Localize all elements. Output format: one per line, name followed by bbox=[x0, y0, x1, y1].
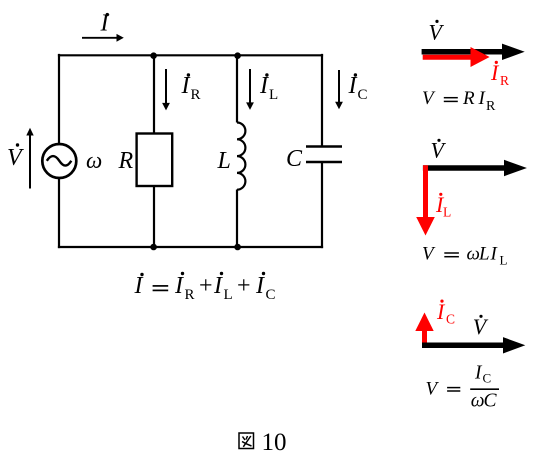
label V source bbox=[7, 143, 24, 171]
phasor2 I_L arrow bbox=[416, 165, 435, 235]
svg-text:R: R bbox=[486, 99, 496, 114]
wire R branch lower bbox=[153, 186, 155, 248]
phasor1 label V bbox=[429, 20, 445, 45]
equation V = omega L I_L bbox=[422, 243, 508, 267]
svg-text:R: R bbox=[462, 88, 475, 109]
svg-text:L: L bbox=[443, 205, 451, 220]
wire left upper bbox=[58, 54, 60, 145]
svg-text:L: L bbox=[478, 243, 490, 264]
svg-text:R: R bbox=[500, 73, 509, 88]
wire L branch upper bbox=[236, 55, 238, 123]
svg-text:L: L bbox=[269, 87, 278, 103]
resistor R bbox=[137, 134, 173, 187]
svg-text:I: I bbox=[255, 273, 265, 299]
svg-text:C: C bbox=[266, 287, 276, 303]
equation I = IR + IL + IC bbox=[134, 272, 276, 303]
wire C branch lower bbox=[321, 163, 323, 249]
svg-text:I: I bbox=[348, 73, 358, 99]
wire top bbox=[58, 54, 323, 56]
svg-text:R: R bbox=[118, 148, 134, 174]
arrow I_C bbox=[335, 70, 343, 109]
svg-text:C: C bbox=[358, 87, 368, 103]
phasor1 V arrow bbox=[422, 44, 525, 60]
svg-text:V: V bbox=[7, 145, 24, 171]
phasor1 I_R arrow bbox=[423, 47, 490, 67]
phasor2 V arrow bbox=[423, 160, 527, 176]
svg-text:10: 10 bbox=[262, 429, 287, 456]
phasor3 label I_C bbox=[436, 299, 455, 326]
svg-text:+: + bbox=[199, 273, 213, 299]
svg-text:R: R bbox=[185, 287, 195, 303]
phasor3 V arrow bbox=[422, 337, 525, 353]
wire C branch upper bbox=[321, 54, 323, 146]
wire R branch upper bbox=[153, 55, 155, 134]
AC source bbox=[42, 144, 76, 178]
phasor1 label I_R bbox=[490, 60, 509, 88]
inductor L bbox=[237, 123, 245, 190]
svg-text:C: C bbox=[286, 146, 303, 172]
label I_L bbox=[259, 73, 278, 103]
svg-text:I: I bbox=[259, 73, 269, 99]
svg-text:I: I bbox=[174, 273, 184, 299]
svg-text:C: C bbox=[484, 391, 498, 412]
svg-text:ω: ω bbox=[471, 391, 485, 412]
svg-text:ω: ω bbox=[86, 148, 102, 173]
arrow I_L bbox=[246, 69, 254, 110]
label I top bbox=[100, 11, 110, 37]
arrow I top bbox=[82, 34, 124, 42]
svg-text:R: R bbox=[191, 87, 201, 103]
capacitor C bbox=[306, 147, 342, 163]
svg-text:C: C bbox=[483, 371, 492, 386]
svg-text:L: L bbox=[500, 252, 508, 267]
wire L branch lower bbox=[236, 190, 238, 248]
arrow I_R bbox=[162, 69, 170, 110]
svg-text:L: L bbox=[217, 148, 231, 174]
label I_C bbox=[348, 73, 368, 103]
svg-text:I: I bbox=[213, 273, 223, 299]
svg-text:C: C bbox=[446, 311, 455, 326]
wire left lower bbox=[58, 178, 60, 249]
equation V = I_C / omega C bbox=[426, 363, 500, 412]
phasor2 label I_L bbox=[435, 192, 451, 220]
svg-text:+: + bbox=[237, 273, 251, 299]
label I_R bbox=[181, 73, 201, 103]
phasor3 label V bbox=[473, 314, 489, 339]
equation V = R I_R bbox=[422, 88, 496, 114]
node bottom L junction bbox=[234, 244, 241, 251]
phasor3 I_C arrow bbox=[415, 313, 433, 348]
phasor2 label V bbox=[431, 138, 447, 163]
node bottom R junction bbox=[150, 244, 157, 251]
wire bottom bbox=[58, 246, 323, 248]
svg-text:L: L bbox=[224, 287, 233, 303]
svg-text:I: I bbox=[181, 73, 191, 99]
node top L junction bbox=[234, 52, 241, 59]
svg-text:ω: ω bbox=[467, 243, 480, 264]
caption zu 10 bbox=[239, 429, 287, 456]
svg-text:I: I bbox=[134, 273, 144, 299]
arrow V source bbox=[26, 128, 33, 189]
node top R junction bbox=[150, 52, 157, 59]
